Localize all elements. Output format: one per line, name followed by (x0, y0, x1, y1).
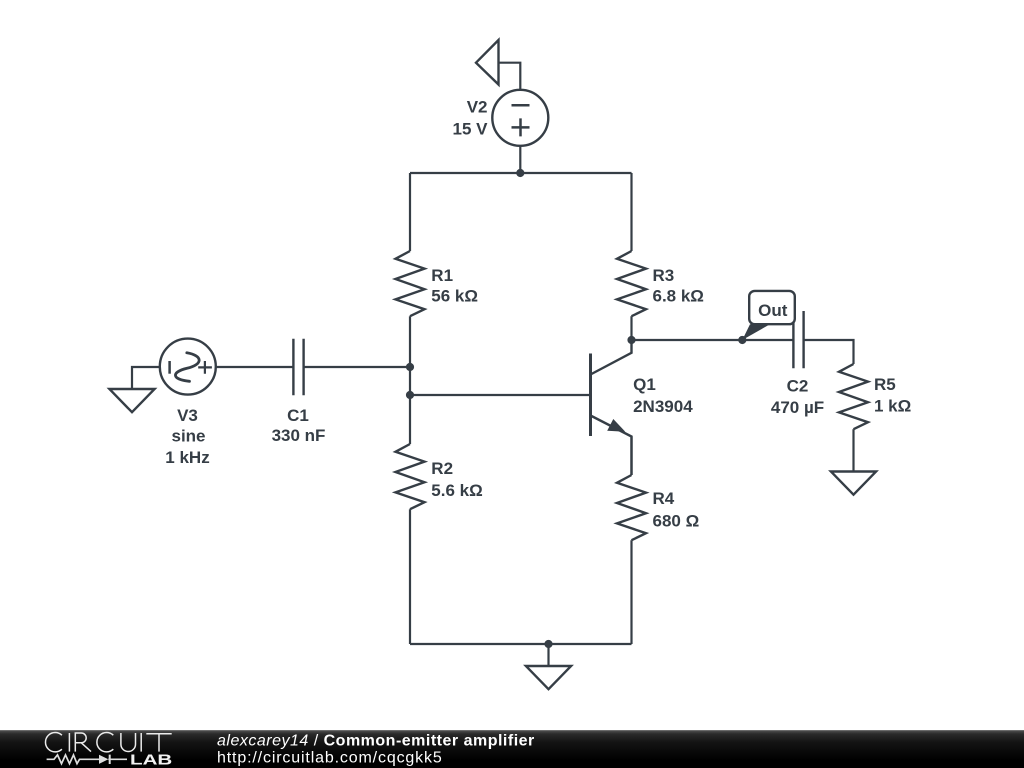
footer bar (0, 730, 1024, 768)
wire bottom rail (410, 643, 632, 645)
capacitor C2 (793, 311, 803, 368)
wire R3 to collector node (630, 316, 632, 340)
logo resistor-diode symbol (47, 755, 127, 764)
resistor R4 (617, 475, 646, 540)
Out flag pointer (742, 324, 770, 340)
ground for V3 (109, 389, 154, 412)
V3 plus sign (198, 361, 212, 374)
Out flag box (749, 291, 795, 324)
wire left rail upper (409, 173, 411, 251)
resistor R5 (839, 364, 868, 429)
wire C2 to R5 (804, 340, 854, 364)
wire V2 to top rail (519, 146, 521, 173)
wire bottom ground stub (547, 644, 549, 666)
logo CIRCUIT word (45, 732, 171, 751)
wire collector node to C2 (632, 339, 794, 341)
logo diode triangle (99, 755, 108, 764)
wire emitter to R4 (630, 437, 632, 476)
resistor R2 (396, 444, 425, 509)
wire R5 to ground (852, 429, 854, 471)
junction node base (406, 391, 414, 399)
transistor Q1 emitter (591, 416, 632, 476)
junction node top rail (516, 169, 524, 177)
wire C1 to left rail (304, 366, 410, 368)
wire top rail (410, 172, 632, 174)
svg-text:LAB: LAB (130, 753, 172, 768)
junction node bottom rail (544, 640, 552, 648)
junction node Out (738, 336, 746, 344)
wire V3 ground stub (132, 367, 160, 389)
svg-text:http://circuitlab.com/cqcgkk5: http://circuitlab.com/cqcgkk5 (217, 750, 443, 767)
capacitor C1 (293, 339, 303, 396)
wire right rail upper (630, 173, 632, 251)
ground bottom (526, 666, 571, 689)
wire V3 to C1 (216, 366, 294, 368)
V3 sine squiggle (175, 353, 199, 382)
junction node C1 out (406, 363, 414, 371)
wire R1 to junctions (409, 316, 411, 444)
junction node collector (627, 336, 635, 344)
wire R2 to bottom rail (409, 509, 411, 644)
resistor R1 (396, 251, 425, 316)
wire base (410, 394, 591, 396)
transistor Q1 emitter arrow (607, 419, 625, 432)
V3 minus bar (168, 361, 171, 374)
svg-text:alexcarey14 / Common-emitter a: alexcarey14 / Common-emitter amplifier (217, 733, 535, 750)
wire R4 to bottom rail (630, 540, 632, 644)
power flag V2 (476, 40, 499, 85)
resistor R3 (617, 251, 646, 316)
ground R5 (831, 472, 876, 495)
transistor Q1 base bar (589, 354, 592, 437)
wire flag to V2 (499, 63, 521, 90)
transistor Q1 collector (591, 340, 632, 375)
voltage source V3 (160, 339, 216, 395)
voltage source V2 (492, 90, 548, 146)
